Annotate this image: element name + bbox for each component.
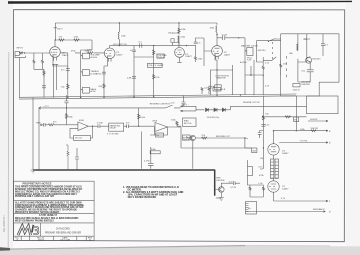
resistor R3 grid leak vertical	[41, 53, 43, 69]
resistor R5 470k	[74, 39, 80, 41]
notice paragraph 1	[15, 186, 83, 199]
V2 plate resistor 100k vertical	[118, 23, 119, 46]
node rail junction	[66, 107, 67, 108]
pull switch box	[148, 63, 163, 67]
capacitor C13 bus to rail	[65, 95, 69, 108]
resistor R20 150k out	[176, 121, 181, 126]
V2 plate line	[107, 46, 119, 51]
svg-text:12AX7: 12AX7	[116, 54, 123, 57]
scan left edge faint line	[7, 52, 10, 248]
resistor R13 820 hanging	[201, 88, 203, 94]
transformer coil hatch	[246, 204, 249, 212]
resistor R22 vertical	[249, 187, 251, 190]
line to power amp A	[274, 130, 329, 132]
V3 plate wire	[178, 36, 180, 48]
triode V3 envelope	[212, 46, 223, 57]
pot P1 wiper	[81, 55, 83, 56]
V3 electrodes	[176, 50, 182, 55]
heater wire upper	[181, 106, 197, 108]
resistor R25 V2 cathode	[103, 84, 105, 89]
tank output cap C9 47n	[124, 124, 139, 128]
transistor Q4 pre driver	[219, 187, 225, 193]
V1 heater stubs	[52, 57, 58, 64]
svg-text:4558: 4558	[79, 120, 85, 122]
Q4 ground	[219, 193, 224, 201]
svg-text:BD243C: BD243C	[312, 58, 321, 60]
svg-text:340 V: 340 V	[57, 29, 63, 31]
svg-text:12AX7: 12AX7	[282, 188, 289, 191]
wire tone top	[75, 50, 92, 53]
op-amp U1	[78, 122, 88, 131]
svg-text:A 1M: A 1M	[90, 90, 95, 93]
resistor R29 15k	[262, 116, 264, 121]
resistor R9 vertical right	[253, 60, 255, 95]
notice paragraph 2	[15, 201, 85, 214]
capacitor C5 22u	[307, 62, 314, 76]
V1 heater drop to bus	[54, 64, 57, 97]
resistor R26 on volume chain	[153, 74, 155, 79]
bottom row cell texts	[15, 237, 93, 242]
svg-text:ADJ 10k: ADJ 10k	[184, 122, 192, 125]
reverb supply rail	[39, 107, 166, 109]
transistor Q3 reverb drive	[190, 135, 195, 140]
vertical x141.7 to bus	[141, 132, 143, 169]
svg-text:SW 830: SW 830	[258, 50, 267, 52]
svg-text:4 TO 8 OHM: 4 TO 8 OHM	[107, 134, 119, 136]
capacitor C2 0,1 on wire	[139, 43, 141, 47]
svg-text:+ 47 V: + 47 V	[43, 106, 50, 108]
svg-text:4,7/35: 4,7/35	[144, 160, 150, 162]
drop to opamp node	[66, 108, 68, 125]
svg-text:84034: 84034	[38, 239, 45, 241]
diode D2	[214, 108, 217, 112]
plate resistor row wire	[55, 39, 92, 41]
pot P6 MASTER box	[247, 48, 253, 56]
svg-text:0,022: 0,022	[222, 34, 228, 36]
wire reverb out down	[245, 138, 252, 148]
switch S1b lead	[263, 57, 276, 61]
input terminal RED	[40, 124, 42, 126]
resistor box 150k right	[252, 148, 257, 153]
node bus master chain	[240, 94, 241, 95]
V4b bottom wire	[274, 192, 329, 202]
V4b electrodes	[269, 184, 276, 189]
U2 feedback	[150, 127, 168, 135]
pot P2 TREBLE box	[83, 70, 90, 76]
wire to reverb pot chain	[181, 147, 252, 149]
U2 out wire	[168, 127, 182, 148]
heater dc wire right	[231, 106, 307, 110]
resistor R15 1k on bias wire	[285, 116, 291, 118]
wire coupling to next stage	[187, 38, 212, 66]
diode D3	[222, 108, 225, 112]
node PI top	[273, 130, 274, 131]
left scan margin shade	[0, 0, 13, 255]
node at volume tap	[153, 45, 154, 46]
supply rail +B	[55, 22, 217, 24]
switch S1a lead	[268, 39, 280, 42]
title block rule 1	[14, 200, 95, 202]
title block rule 4	[14, 235, 95, 237]
svg-text:4,7/35: 4,7/35	[230, 187, 236, 189]
resistor R21 220 on wire	[201, 137, 207, 139]
capacitor C17 10u on 210 chain	[208, 86, 212, 88]
svg-text:+ 4,7n: + 4,7n	[169, 102, 176, 104]
node bias wire	[263, 116, 264, 117]
presence pot box	[293, 84, 300, 87]
node bus V1 cathode	[67, 97, 68, 98]
V3 heater stubs	[216, 56, 218, 59]
Q3 emitter to bus	[192, 141, 194, 169]
resistor R19 150k	[138, 114, 140, 119]
V2 heater stubs	[108, 58, 111, 61]
upper row labels	[16, 27, 287, 93]
svg-text:500p: 500p	[168, 32, 174, 34]
scan top black strip	[8, 1, 352, 4]
switch gang dashes inside box	[286, 56, 288, 77]
svg-text:DYNACORD: DYNACORD	[56, 227, 70, 230]
ground symbol left	[31, 170, 36, 173]
V3 cathode	[214, 54, 219, 70]
node bus V2 cathode	[103, 97, 104, 98]
node bus tone chain	[80, 97, 81, 98]
svg-text:250k A: 250k A	[157, 56, 164, 59]
svg-text:DRIVER: DRIVER	[216, 180, 225, 182]
svg-text:WEST-GERMANY PHONE 8087/31: WEST-GERMANY PHONE 8087/313	[15, 220, 54, 223]
V1 cathode	[52, 55, 68, 66]
jack sleeve wire to bus	[18, 58, 20, 98]
node bus volume chain	[153, 96, 154, 97]
title block outline	[14, 181, 95, 240]
connector block box	[307, 96, 339, 114]
reverb control switch	[166, 105, 181, 108]
resistor R17 input	[48, 124, 67, 126]
wire master to switch area	[245, 66, 263, 75]
node driver out	[296, 130, 297, 131]
resistor R1 68k	[19, 52, 23, 54]
resistor R12 68k	[297, 34, 298, 62]
supply entry tick	[54, 23, 57, 40]
triode V1 envelope	[50, 47, 61, 58]
svg-text:12AX7: 12AX7	[62, 54, 69, 57]
diode D1	[206, 108, 209, 112]
driver labels	[289, 39, 328, 91]
resistor R14 1k hanging	[208, 88, 210, 94]
svg-text:MB ELECTRIC GESELLSCHAFT M.B.: MB ELECTRIC GESELLSCHAFT M.B.H. 8284 KIR…	[15, 217, 79, 220]
scan bottom-left dark blob	[0, 247, 10, 251]
right mid vertical	[262, 96, 264, 169]
capacitor C18 side 10u	[258, 131, 264, 139]
title block logo cell divider	[40, 223, 42, 236]
wire tank to U2	[139, 125, 155, 127]
capacitor C8 4,7/35	[75, 148, 79, 170]
svg-text:RED: RED	[36, 122, 41, 124]
svg-text:PREAMP, REVERB AND DRIVER: PREAMP, REVERB AND DRIVER	[45, 231, 81, 234]
PI labels	[243, 102, 331, 213]
resistor R11 160 on box edge	[280, 60, 282, 75]
node bus mid chain	[133, 96, 134, 97]
svg-text:A 5757 HUME 57: A 5757 HUME 57	[39, 214, 58, 217]
svg-text:JULY 1983: JULY 1983	[60, 239, 71, 241]
pot P1 VOLUME box	[83, 53, 90, 59]
switch gang dash-dot link	[272, 42, 274, 59]
MB logo (outline italic letters)	[18, 225, 38, 235]
triode V4a envelope	[268, 144, 279, 155]
bias components right of Q4	[248, 160, 264, 197]
vertical x150.8 with cap	[148, 147, 154, 169]
node right mid	[263, 147, 264, 148]
node V3 plate	[216, 34, 217, 35]
node master out	[250, 74, 252, 76]
wire plate row to tone chain	[91, 40, 93, 50]
right scan margin shade	[346, 0, 360, 255]
Q4 collector wire	[221, 183, 233, 187]
diode row wires	[209, 109, 231, 111]
svg-text:250k B: 250k B	[293, 89, 300, 91]
svg-text:BIAS: BIAS	[184, 120, 189, 123]
resistor R4 47k	[59, 39, 65, 41]
input cap C6 47n	[42, 123, 48, 127]
supply rail left vertical	[33, 98, 39, 170]
node coupling junction	[238, 37, 239, 38]
resistor R10 4,7k vertical	[262, 57, 264, 95]
output transformer box	[246, 202, 257, 215]
wire grid network bottom	[34, 69, 44, 97]
resistor box 100k above bus	[213, 88, 221, 92]
node rail drop	[178, 22, 179, 23]
title block bottom row divider 4	[76, 236, 78, 240]
transistor Q2 BD243C	[306, 57, 312, 63]
feedback line	[246, 211, 325, 213]
pot P6 wiper	[245, 50, 247, 51]
driver to PI vertical	[295, 96, 297, 131]
svg-text:400 V RATED IN DECIM.: 400 V RATED IN DECIM.	[128, 195, 157, 199]
node V3 cathode	[216, 69, 217, 70]
svg-text:100/1W: 100/1W	[310, 119, 318, 121]
svg-text:12AX7: 12AX7	[185, 55, 192, 58]
tone chain main vertical	[80, 50, 82, 98]
V3 plate resistor 100k	[216, 23, 217, 41]
resistor R2 1M vertical	[33, 53, 35, 69]
heater join to diodes	[196, 106, 205, 111]
bias wire right	[262, 116, 307, 118]
capacitor C7 4,7/35	[98, 124, 109, 128]
scan bottom edge line	[0, 246, 245, 250]
driver supply wire	[303, 34, 310, 56]
resistor R8 1M zigzag on chain	[153, 50, 155, 55]
svg-text:12AX7: 12AX7	[224, 54, 231, 57]
svg-text:INPUT: INPUT	[16, 48, 23, 50]
svg-text:150k: 150k	[252, 150, 256, 152]
svg-text:A 250k: A 250k	[240, 61, 248, 64]
svg-text:4558: 4558	[152, 121, 158, 123]
V1 grid dashes	[51, 51, 57, 53]
svg-text:100k B: 100k B	[183, 139, 190, 141]
switch box outline	[256, 41, 281, 62]
resistor R28 330 1W on line A	[311, 130, 316, 132]
svg-text:1M: 1M	[156, 135, 159, 137]
title block rule 3	[14, 222, 95, 224]
wire cathode to master2	[210, 70, 232, 95]
title block bottom row divider 1	[20, 236, 22, 240]
U2 feedback resistor box	[156, 133, 164, 137]
svg-text:A 500k: A 500k	[90, 56, 98, 59]
capacitor C3 1n	[132, 46, 136, 53]
svg-text:47/25: 47/25	[96, 73, 102, 75]
upper ground bus line 1	[19, 94, 296, 97]
svg-text:4,7/35: 4,7/35	[97, 123, 104, 125]
svg-text:DELAY: DELAY	[110, 127, 117, 130]
svg-text:6,3 V ~: 6,3 V ~	[182, 104, 190, 106]
svg-text:Mat. 84034 Bl.1: Mat. 84034 Bl.1	[3, 215, 6, 232]
thick ground bus	[33, 169, 215, 171]
node plate row	[55, 39, 56, 40]
svg-text:PULL S. SHIFT: PULL S. SHIFT	[149, 65, 165, 67]
U1 feedback loop	[70, 126, 93, 138]
input jack J1	[15, 52, 25, 58]
scan bottom grey wedge	[0, 246, 360, 255]
V3 cathode wire	[177, 57, 181, 62]
master chain vertical	[244, 38, 246, 95]
svg-text:S.W.: S.W.	[247, 60, 252, 62]
svg-text:1M: 1M	[260, 158, 263, 160]
coupling wire V2 to V3	[119, 45, 186, 47]
node reverb out	[244, 137, 245, 138]
title block bottom row divider 3	[52, 236, 54, 240]
driver lower wires	[298, 62, 310, 82]
wire to opamp	[67, 124, 78, 126]
resistor box PI right	[275, 159, 278, 178]
node V3 grid res	[186, 45, 187, 46]
node grid V1	[24, 52, 25, 53]
wire jack to V1 grid	[25, 52, 50, 54]
capacitor C12 cathode bypass	[42, 86, 46, 88]
V4a electrodes	[269, 147, 276, 152]
line to power amp B	[279, 142, 328, 144]
svg-text:12AX7: 12AX7	[282, 152, 289, 155]
pot P5 wiper	[213, 86, 215, 87]
ground near q4 column	[216, 197, 221, 199]
capacitor C14 V2 bypass	[102, 72, 106, 74]
resistor R16 150k	[65, 114, 67, 119]
rail drop resistor 100k at x179	[178, 23, 180, 34]
PI column wires	[273, 155, 275, 181]
svg-text:6,3 V: 6,3 V	[229, 181, 235, 183]
pot P3 BASS box	[83, 87, 90, 93]
op-amp U2	[155, 123, 168, 132]
node rail V2	[119, 22, 120, 23]
heater feed stub	[182, 96, 186, 107]
node V2 plate	[119, 45, 120, 46]
title block rule 2	[14, 212, 95, 214]
grid stopper pair R220k C500p	[171, 28, 179, 46]
heater wire lower	[181, 110, 197, 112]
title block bottom row divider 5	[85, 236, 87, 240]
resistor R24 2,7k cathode	[43, 71, 45, 78]
svg-text:REVERB OUT: REVERB OUT	[216, 136, 231, 138]
svg-text:10u: 10u	[248, 208, 251, 210]
supply tick	[39, 107, 41, 110]
svg-text:TO P.A.: TO P.A.	[300, 139, 308, 142]
V3 grid dashes	[213, 50, 219, 52]
svg-text:DRIVER: DRIVER	[301, 84, 310, 86]
svg-text:1N 4003 (3x): 1N 4003 (3x)	[207, 117, 220, 119]
resistor R23 vertical	[262, 187, 264, 190]
resistor R27 470k	[195, 45, 197, 62]
node tank out	[138, 126, 139, 127]
heater labels	[182, 104, 298, 121]
capacitor C10 10u	[261, 124, 265, 126]
volume pot chain vertical	[134, 46, 154, 98]
pot P3 wiper	[81, 89, 83, 90]
pot P2 wiper	[81, 71, 83, 72]
pot P4 VOLUME 2 box	[157, 54, 164, 58]
reverb tank box	[109, 123, 124, 131]
U1 output node	[88, 125, 98, 127]
capacitor C1 47u	[66, 67, 70, 72]
triode V3 envelope	[175, 48, 185, 58]
svg-text:330/1W: 330/1W	[310, 128, 318, 130]
svg-text:PRODUCTS WITHOUT NOTICE HEREBY: PRODUCTS WITHOUT NOTICE HEREBY.	[15, 212, 60, 214]
svg-text:FEEDBACK: FEEDBACK	[313, 208, 325, 211]
triode V2 envelope	[104, 48, 115, 59]
junction box lower right	[248, 167, 253, 176]
svg-text:REVERB OUT 5W: REVERB OUT 5W	[243, 102, 260, 104]
bias resistor R18	[33, 145, 215, 170]
svg-text:MASTER 1 A 50k: MASTER 1 A 50k	[241, 44, 259, 47]
driver box outline	[281, 34, 339, 96]
title block bottom row divider 2	[29, 236, 31, 240]
V4a top wire	[273, 131, 275, 144]
thick bus corner down	[214, 170, 216, 196]
reverb pot box	[183, 135, 191, 140]
middle labels	[201, 114, 270, 189]
recovery bias vertical	[138, 108, 140, 126]
triode V4b envelope	[268, 181, 279, 192]
V2 cathode	[104, 56, 111, 98]
wire down mid chain	[232, 65, 234, 95]
reverb labels	[36, 102, 191, 162]
resistor R7 220k to V2 grid	[88, 52, 105, 54]
upper ground bus line 2	[19, 96, 296, 99]
capacitor C11 4,7/35	[233, 181, 240, 185]
resistor box PI left	[271, 159, 274, 178]
V3 plate	[215, 41, 220, 48]
cathode chain vertical	[67, 53, 69, 98]
pot P5 box 250k B	[215, 85, 221, 90]
svg-text:PROPRIETARY NOTICE: PROPRIETARY NOTICE	[23, 181, 52, 185]
resistor box 100k mid	[150, 151, 160, 154]
feedback box U1	[74, 135, 91, 140]
V1 plate line	[53, 40, 58, 49]
resistor box 470 below wire	[294, 117, 299, 122]
svg-text:560 10u: 560 10u	[75, 137, 82, 139]
wire REVERB OUT	[187, 136, 245, 138]
capacitor C19 0,1/63	[321, 34, 325, 56]
resistor R6 1,5k	[67, 84, 69, 89]
node lead mix	[263, 75, 264, 76]
svg-text:PURPOSE ONLY. ERSTELLDAT 5: PURPOSE ONLY. ERSTELLDAT 587	[15, 195, 55, 198]
V2 grid dashes	[106, 53, 112, 55]
node bus V3 cathode	[216, 95, 217, 96]
company address lines	[15, 214, 79, 222]
capacitor C15 on mid chain	[132, 76, 136, 78]
coupling cap C4 from V3 plate	[217, 36, 245, 40]
distortion master pot vertical	[216, 70, 218, 95]
bias adjust box	[183, 118, 197, 127]
svg-text:MASTER: MASTER	[216, 77, 226, 80]
capacitor C16 1,5n	[194, 40, 199, 44]
